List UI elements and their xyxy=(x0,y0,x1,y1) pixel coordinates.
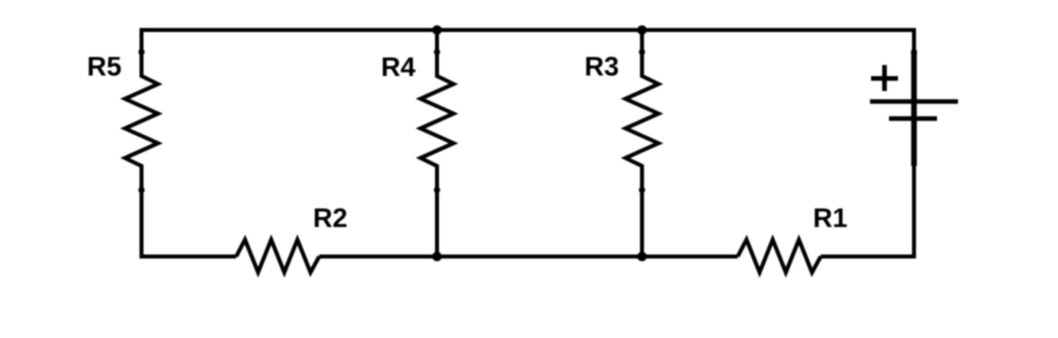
svg-text:R1: R1 xyxy=(813,203,848,233)
svg-text:R2: R2 xyxy=(313,203,348,233)
svg-text:R5: R5 xyxy=(87,52,122,82)
svg-text:R3: R3 xyxy=(585,52,620,82)
svg-text:R4: R4 xyxy=(381,52,416,82)
